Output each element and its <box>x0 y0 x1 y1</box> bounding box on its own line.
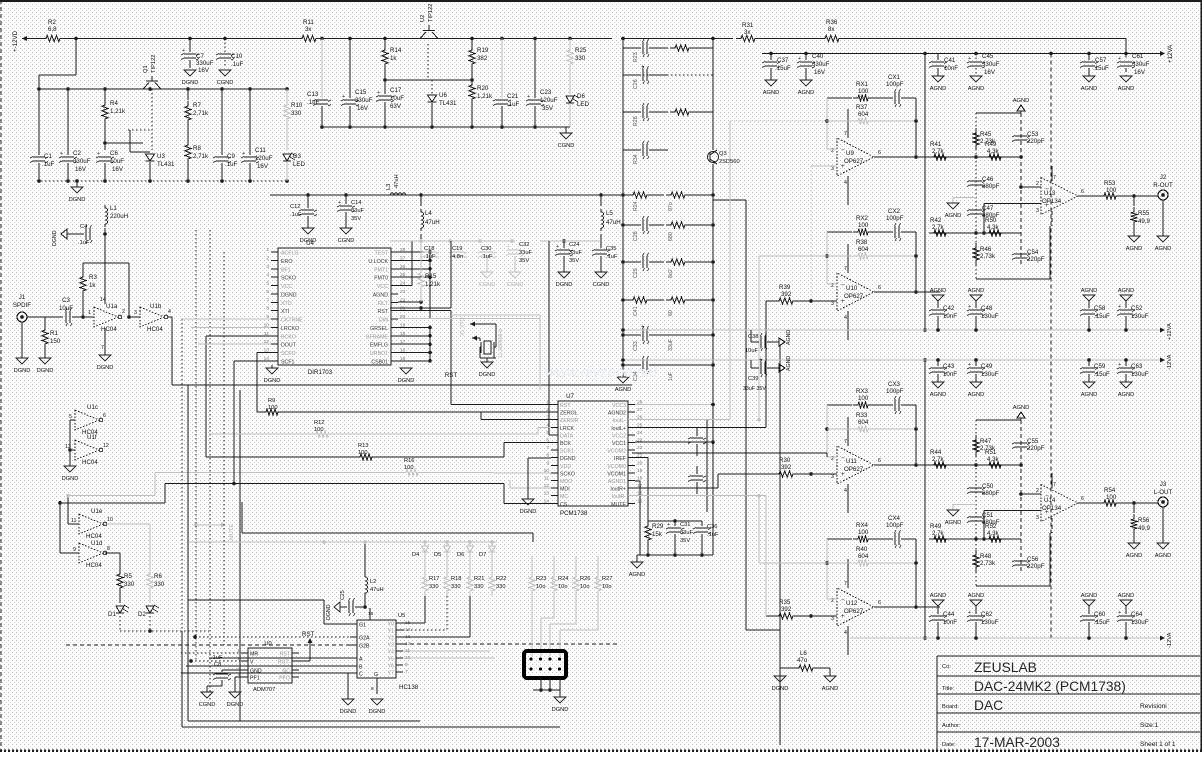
svg-text:7: 7 <box>1053 482 1056 488</box>
ground AGND <box>1128 236 1140 242</box>
wire SCKO bus <box>68 495 155 497</box>
pin PFO <box>292 676 299 678</box>
svg-text:100pF: 100pF <box>886 388 904 395</box>
svg-text:G2B: G2B <box>359 644 370 650</box>
svg-text:R39: R39 <box>779 284 791 291</box>
svg-text:XTI: XTI <box>281 309 289 315</box>
wire dotted row <box>623 74 713 76</box>
svg-text:CGND: CGND <box>199 702 216 708</box>
bus dotted <box>209 230 211 700</box>
svg-text:19: 19 <box>637 468 643 474</box>
ground DGND U1a <box>104 328 106 355</box>
pin 14 CS <box>551 502 558 504</box>
svg-text:8x: 8x <box>828 26 835 33</box>
svg-text:DGND: DGND <box>398 378 415 384</box>
ground DGND <box>234 677 236 692</box>
capacitor C63 lower <box>1125 360 1127 366</box>
svg-text:CX3: CX3 <box>888 381 901 388</box>
svg-text:A: A <box>359 657 363 663</box>
svg-text:+: + <box>527 94 530 100</box>
svg-text:330uF: 330uF <box>1132 61 1150 68</box>
resistor R16 100 <box>401 469 423 475</box>
capacitor C64 bottom <box>1120 600 1132 606</box>
svg-text:.1uF: .1uF <box>481 254 493 260</box>
capacitor C15 <box>349 39 351 99</box>
svg-text:X1 XTO: X1 XTO <box>460 317 466 336</box>
capacitor C54 220pF <box>1015 254 1027 258</box>
svg-text:HC04: HC04 <box>82 459 98 466</box>
ground AGND <box>800 80 812 86</box>
svg-text:.1uF: .1uF <box>290 212 302 218</box>
svg-text:+: + <box>1118 304 1121 310</box>
capacitor CX1 100pF <box>895 92 899 104</box>
capacitor C7 <box>189 39 191 53</box>
svg-text:23: 23 <box>400 289 406 295</box>
wire to jack <box>1121 502 1158 504</box>
inductor L3 <box>390 193 406 195</box>
ground AGND <box>824 676 836 682</box>
svg-text:330: 330 <box>429 584 439 590</box>
resistor RX1 100 <box>827 97 852 99</box>
svg-text:130uF: 130uF <box>981 371 999 378</box>
svg-text:C61: C61 <box>1132 53 1144 60</box>
svg-text:4: 4 <box>266 272 269 278</box>
svg-text:49,9: 49,9 <box>1138 218 1151 225</box>
svg-text:SCFO: SCFO <box>281 351 296 357</box>
wire MC bus <box>60 502 165 504</box>
svg-text:33uF: 33uF <box>351 208 365 214</box>
svg-text:+: + <box>641 324 644 330</box>
capacitor C24 <box>563 241 565 248</box>
svg-text:10nF: 10nF <box>943 313 957 320</box>
resistor R1 <box>44 317 46 325</box>
capacitor C51 680pF <box>970 517 982 521</box>
wire VCC1 feed <box>635 441 713 443</box>
ground CGND <box>595 272 607 278</box>
pin 8 XTI <box>271 310 278 312</box>
pin 15 CSB01 <box>391 360 398 362</box>
pin 3 BF1 <box>271 268 278 270</box>
svg-text:+-12VD: +-12VD <box>12 30 19 52</box>
capacitor decoupling <box>691 438 703 442</box>
svg-text:2,7k: 2,7k <box>932 148 945 155</box>
wire noninverting tie <box>811 165 837 167</box>
ground DGND <box>371 699 383 705</box>
pin 5 DATA <box>551 434 558 436</box>
IC U4 DIR1703 <box>278 248 391 365</box>
svg-text:U1f: U1f <box>87 434 97 441</box>
ground DGND <box>774 676 786 682</box>
wire to +12VA <box>844 38 1126 40</box>
svg-text:DATA: DATA <box>560 433 574 439</box>
svg-text:+: + <box>242 151 245 157</box>
svg-text:DGND: DGND <box>14 368 31 374</box>
svg-text:+: + <box>377 90 380 96</box>
svg-text:AGND: AGND <box>930 392 947 398</box>
dashed column x1021 <box>1020 113 1022 264</box>
svg-text:R25: R25 <box>575 47 587 54</box>
pin 24 VCC2 <box>628 434 635 436</box>
capacitor C9 <box>221 89 223 155</box>
ground DGND <box>76 181 78 187</box>
svg-text:R13: R13 <box>358 443 369 449</box>
resistor R3 <box>82 263 84 272</box>
svg-text:R24: R24 <box>558 576 569 582</box>
svg-text:2: 2 <box>1036 488 1039 494</box>
pin RST- <box>292 660 299 662</box>
svg-text:AGND: AGND <box>968 593 985 599</box>
svg-text:9: 9 <box>546 460 549 466</box>
capacitor C36 <box>701 521 703 526</box>
svg-text:R18: R18 <box>451 576 462 582</box>
svg-text:OP627: OP627 <box>844 466 864 473</box>
pin Y4 <box>396 650 403 652</box>
svg-text:10nF: 10nF <box>943 619 957 626</box>
svg-text:16V: 16V <box>75 166 87 173</box>
wire U11 feeds <box>628 487 718 489</box>
svg-text:AGND: AGND <box>930 593 947 599</box>
svg-text:3x: 3x <box>744 29 751 36</box>
svg-text:B: B <box>359 665 363 671</box>
svg-text:C24: C24 <box>569 242 580 248</box>
inductor L4 <box>420 195 422 206</box>
wire <box>780 667 794 669</box>
pin 6 DGND <box>271 293 278 295</box>
capacitor C13 <box>321 39 323 99</box>
svg-text:392: 392 <box>781 464 792 471</box>
svg-text:604: 604 <box>858 553 869 560</box>
pin 22 VCOM2 <box>628 449 635 451</box>
svg-text:RST: RST <box>560 403 571 409</box>
svg-text:.15uF: .15uF <box>1093 65 1109 72</box>
pin Y6 <box>396 664 403 666</box>
svg-text:60: 60 <box>668 310 674 316</box>
ground AGND <box>1128 543 1140 549</box>
svg-text:6: 6 <box>878 458 881 464</box>
bus dotted <box>223 252 225 645</box>
svg-text:LED: LED <box>577 101 590 108</box>
svg-text:OP627: OP627 <box>844 158 864 165</box>
svg-text:150: 150 <box>50 338 61 345</box>
pin 6 BCK <box>551 442 558 444</box>
ground DGND <box>486 358 488 362</box>
svg-text:+: + <box>182 48 185 54</box>
svg-text:1,21k: 1,21k <box>477 93 493 100</box>
pin 8 DGND <box>551 457 558 459</box>
pin 18 AGND1 <box>628 480 635 482</box>
wire VCC3 feed <box>635 404 713 406</box>
svg-text:HC04: HC04 <box>86 562 102 569</box>
svg-text:.1uF: .1uF <box>42 161 55 168</box>
wire bottom dotted rail <box>37 180 287 182</box>
svg-text:R19: R19 <box>477 47 489 54</box>
svg-text:R37: R37 <box>856 104 868 111</box>
pin 10 SCKO <box>551 472 558 474</box>
ground DGND <box>302 228 314 234</box>
capacitor C37 <box>770 54 772 61</box>
op-amp U11 OP627 <box>837 446 874 484</box>
svg-text:MC: MC <box>560 494 568 500</box>
svg-text:DGND: DGND <box>264 378 281 384</box>
inductor L1 <box>105 205 108 227</box>
svg-text:C33: C33 <box>633 341 639 351</box>
svg-text:U9: U9 <box>846 150 854 157</box>
capacitor C35 <box>600 241 602 248</box>
wire bottom loop <box>976 585 1050 587</box>
svg-text:14: 14 <box>100 297 106 303</box>
capacitor C41 <box>937 54 939 61</box>
filter row y365 <box>643 359 647 371</box>
wire output <box>874 606 940 608</box>
svg-text:C59: C59 <box>1094 363 1106 370</box>
svg-text:Y6: Y6 <box>388 664 395 670</box>
svg-text:R38: R38 <box>856 239 868 246</box>
wire <box>760 38 820 40</box>
capacitor C50 680pF <box>970 488 982 492</box>
title block <box>937 656 1200 750</box>
wire left pins <box>191 660 241 662</box>
svg-text:EMFLG: EMFLG <box>370 343 388 349</box>
svg-text:XTO: XTO <box>281 301 292 307</box>
pin 4 LRCK <box>551 426 558 428</box>
pin 15 MUTE <box>628 502 635 504</box>
IC U7 PCM1738 <box>558 401 628 506</box>
svg-text:VCC: VCC <box>281 284 292 290</box>
svg-text:R14: R14 <box>390 47 402 54</box>
svg-text:16V: 16V <box>1134 69 1146 76</box>
svg-text:VCC3: VCC3 <box>612 403 626 409</box>
svg-text:120uF: 120uF <box>255 155 273 162</box>
svg-text:27: 27 <box>637 407 643 413</box>
svg-text:4: 4 <box>844 630 847 636</box>
svg-text:7: 7 <box>844 266 847 272</box>
net XTI <box>472 336 477 341</box>
resistor R31 <box>736 35 760 41</box>
svg-text:33uF: 33uF <box>680 530 694 536</box>
capacitor C46 680pF <box>970 181 982 185</box>
wire feedback left <box>826 405 828 457</box>
svg-text:C13: C13 <box>307 91 319 98</box>
wire <box>623 38 733 40</box>
svg-text:4: 4 <box>168 309 171 315</box>
svg-text:1uF: 1uF <box>668 372 674 381</box>
svg-text:RST-: RST- <box>278 660 290 666</box>
svg-text:LED: LED <box>293 161 306 168</box>
svg-text:330: 330 <box>291 110 302 117</box>
pin 28 TEST <box>391 251 398 253</box>
wire SCF1 row <box>233 361 235 484</box>
wire <box>27 316 63 318</box>
svg-text:47uH: 47uH <box>425 219 440 226</box>
resistor R36 <box>820 35 844 41</box>
svg-text:AGND: AGND <box>1081 392 1098 398</box>
svg-text:1,21k: 1,21k <box>110 108 126 115</box>
svg-text:G: G <box>374 672 378 678</box>
capacitor CX4 100pF <box>895 533 899 545</box>
svg-text:CX2: CX2 <box>888 208 901 215</box>
svg-text:D6: D6 <box>457 552 464 558</box>
resistor R5 <box>117 569 123 593</box>
svg-text:10o: 10o <box>580 584 590 590</box>
inverter U1d <box>79 543 103 563</box>
pin 13 SCFO <box>271 352 278 354</box>
svg-text:Board:: Board: <box>942 704 959 710</box>
svg-text:R41: R41 <box>930 141 942 148</box>
svg-text:CKTRNE: CKTRNE <box>281 318 303 324</box>
svg-text:.1uF: .1uF <box>225 161 238 168</box>
svg-text:R21: R21 <box>474 576 485 582</box>
inductor L5 <box>600 195 602 206</box>
wire U10 row2 feed <box>758 256 760 420</box>
resistor R55 49,9 <box>1133 196 1135 206</box>
svg-text:.15uF: .15uF <box>1094 371 1110 378</box>
svg-text:CX4: CX4 <box>888 515 901 522</box>
svg-text:10uF: 10uF <box>390 95 404 102</box>
svg-text:D4: D4 <box>412 552 420 558</box>
svg-text:+: + <box>968 56 971 62</box>
wire <box>321 38 612 40</box>
svg-text:C41: C41 <box>633 306 639 316</box>
svg-text:U10: U10 <box>846 285 858 292</box>
capacitor CX3 100pF <box>895 399 899 411</box>
svg-text:+: + <box>97 151 100 157</box>
svg-text:4,3k: 4,3k <box>987 148 1000 155</box>
svg-text:4,3k: 4,3k <box>987 456 1000 463</box>
wire filter column rails <box>622 39 624 196</box>
resistor R54 100 <box>1099 500 1121 506</box>
svg-text:R3: R3 <box>89 274 97 281</box>
capacitor C1 <box>38 89 40 155</box>
svg-text:IoutR-: IoutR- <box>612 494 627 500</box>
svg-text:L-OUT: L-OUT <box>1154 489 1173 496</box>
svg-text:L4: L4 <box>425 210 432 217</box>
IC U5 HC138 <box>357 620 396 678</box>
svg-text:Y4: Y4 <box>388 650 395 656</box>
capacitor C48 upper <box>970 295 982 301</box>
svg-text:C41: C41 <box>944 57 956 64</box>
op-amp U12 OP627 <box>837 588 874 626</box>
svg-text:R24: R24 <box>633 201 639 211</box>
wire pin2 <box>1021 186 1041 188</box>
ground DGND <box>558 272 570 278</box>
svg-text:35V: 35V <box>351 216 361 222</box>
svg-text:6: 6 <box>1081 189 1084 195</box>
svg-text:AGND: AGND <box>1155 246 1172 252</box>
svg-text:C23: C23 <box>540 89 552 96</box>
svg-text:AGND: AGND <box>968 288 985 294</box>
svg-text:220pF: 220pF <box>1027 138 1045 145</box>
svg-text:130uF: 130uF <box>1131 371 1149 378</box>
ground DGND <box>400 368 412 374</box>
svg-text:100: 100 <box>1106 494 1117 501</box>
svg-text:AGND: AGND <box>1081 288 1098 294</box>
svg-text:U12: U12 <box>846 600 858 607</box>
ground AGND <box>1083 76 1095 82</box>
svg-text:6: 6 <box>878 150 881 156</box>
svg-text:220uH: 220uH <box>110 213 128 220</box>
ground AGND <box>765 80 777 86</box>
wire gray rail y241 <box>390 240 515 242</box>
svg-text:DGND: DGND <box>560 456 576 462</box>
pin 1 ACFLG <box>271 251 278 253</box>
svg-text:IoutL-: IoutL- <box>613 418 627 424</box>
svg-text:680pF: 680pF <box>982 183 1000 190</box>
svg-text:R26: R26 <box>580 576 591 582</box>
capacitor C11 <box>249 89 251 155</box>
svg-text:.15uF: .15uF <box>1094 313 1110 320</box>
wire pin4 <box>847 626 849 655</box>
capacitor C45 <box>975 54 977 61</box>
resistor R42 2,7k <box>929 230 951 236</box>
svg-text:604: 604 <box>858 111 869 118</box>
svg-text:7: 7 <box>266 297 269 303</box>
svg-text:IoutR+: IoutR+ <box>610 487 626 493</box>
pin 19 VCOM1 <box>628 472 635 474</box>
pin 14 SCF1 <box>271 360 278 362</box>
svg-text:+: + <box>556 244 559 250</box>
svg-text:100: 100 <box>858 222 869 229</box>
svg-text:.1uF: .1uF <box>231 61 244 68</box>
svg-text:AGND: AGND <box>1118 86 1135 92</box>
ground DGND <box>184 70 196 76</box>
resistor R30 392 <box>774 471 798 477</box>
pin 3 GND <box>241 669 248 671</box>
svg-text:ERO: ERO <box>281 259 292 265</box>
pin 11 MDO <box>551 480 558 482</box>
capacitor C30 <box>481 252 493 256</box>
svg-text:Size:1: Size:1 <box>1140 722 1159 729</box>
ground DGND <box>342 699 354 705</box>
resistor R49 4,3k <box>984 154 1006 160</box>
capacitor C17 <box>379 96 391 100</box>
ground DGND left <box>334 602 340 612</box>
svg-text:R16: R16 <box>404 458 415 464</box>
wire + ground <box>69 420 71 466</box>
svg-text:2,73k: 2,73k <box>980 138 996 145</box>
svg-text:TIP122: TIP122 <box>151 55 157 73</box>
svg-text:L1: L1 <box>110 205 117 212</box>
resistor R47 2,73k <box>973 435 979 457</box>
svg-text:PCM1738: PCM1738 <box>560 510 588 517</box>
capacitor C58 upper <box>1083 295 1095 301</box>
svg-text:.1uF: .1uF <box>606 254 618 260</box>
svg-text:DGND: DGND <box>520 509 537 515</box>
svg-text:-12VA: -12VA <box>1167 632 1173 648</box>
svg-text:6: 6 <box>266 289 269 295</box>
pin RST <box>292 652 299 654</box>
svg-text:VCOM0: VCOM0 <box>607 464 626 470</box>
svg-text:AGND: AGND <box>1126 553 1143 559</box>
pin 20 DIN <box>391 318 398 320</box>
svg-text:R27: R27 <box>602 576 613 582</box>
svg-text:LRCKO: LRCKO <box>281 326 299 332</box>
svg-text:R31: R31 <box>742 22 754 29</box>
svg-text:AGND: AGND <box>1013 98 1030 104</box>
svg-text:DOUT: DOUT <box>281 343 297 349</box>
svg-text:11: 11 <box>71 518 77 524</box>
bus wire <box>239 390 241 721</box>
svg-text:VCC: VCC <box>377 284 388 290</box>
wire row2 from op627 feedback <box>931 232 1021 234</box>
wire GRSEL group <box>429 327 431 360</box>
svg-text:10nF: 10nF <box>943 371 957 378</box>
LED D3 <box>283 154 291 161</box>
svg-text:SCKO: SCKO <box>281 276 296 282</box>
capacitor C25 <box>349 601 353 613</box>
svg-text:AGND: AGND <box>1081 593 1098 599</box>
svg-text:IoutL+: IoutL+ <box>611 426 626 432</box>
svg-text:OP134: OP134 <box>1042 198 1062 205</box>
